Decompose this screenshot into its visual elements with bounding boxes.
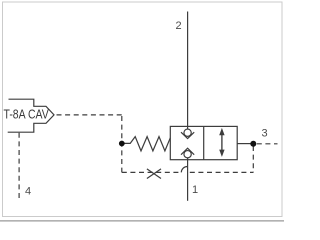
svg-text:2: 2 — [175, 20, 181, 32]
wire: bottom dashed horizontal (left of hop) — [122, 171, 182, 173]
valve body box — [170, 126, 237, 159]
node: port 3 junction — [250, 141, 256, 147]
wire: port 1 vertical line — [187, 158, 189, 201]
svg-text:1: 1 — [192, 184, 198, 196]
bottom separator line — [0, 220, 284, 222]
wire: dashed line to port 4 — [18, 133, 20, 201]
border frame — [3, 2, 283, 217]
wire: bottom dashed horizontal (right of hop) — [190, 171, 254, 173]
wire: left dashed vertical — [121, 116, 123, 172]
plug X symbol on pilot line — [147, 169, 161, 179]
check valve seat (top) — [181, 132, 194, 138]
check valve ball (bottom) — [184, 151, 191, 158]
check valve seat (bottom) — [181, 148, 194, 155]
wire: dashed line to port 3 border — [257, 143, 278, 145]
node: pilot junction left — [119, 141, 125, 147]
flow arrow (right cell) — [221, 131, 223, 155]
spring — [125, 137, 171, 151]
cavity outline T-8A — [8, 99, 54, 132]
wire: right dashed vertical — [252, 146, 254, 172]
flow arrow heads — [219, 128, 224, 135]
wire: dashed pilot line from cavity to node — [57, 114, 122, 116]
wire: port 2 vertical line — [187, 12, 189, 130]
wire: valve to node 3 — [237, 143, 250, 145]
valve box divider — [203, 126, 205, 159]
svg-text:4: 4 — [25, 185, 31, 197]
svg-text:T-8A CAV: T-8A CAV — [4, 108, 50, 122]
check valve ball (top) — [184, 129, 191, 136]
wire: hop arc over port 1 line — [181, 167, 187, 173]
svg-text:3: 3 — [262, 128, 268, 140]
